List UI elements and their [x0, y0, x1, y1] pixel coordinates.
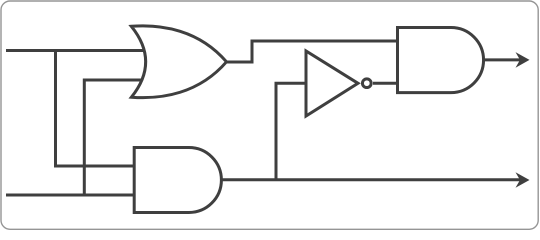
wire AND1 output to top right arrow — [482, 58, 521, 61]
not-gate G3 triangle — [306, 51, 358, 116]
wire NOT output to AND1 input 2 — [373, 82, 400, 85]
wire input A (top left horizontal) — [6, 49, 150, 52]
and-gate G4 (top) — [398, 28, 484, 93]
and-gate G2 (bottom) — [134, 148, 221, 213]
wire OR output stepping up to AND1 input 1 — [227, 41, 401, 62]
wire input B (bottom left horizontal) — [6, 194, 140, 197]
not-gate G3 bubble — [362, 79, 371, 88]
wire branch from input B up and right to OR input 2 — [84, 80, 150, 195]
or-gate G1 — [131, 26, 226, 98]
wire AND2 output to bottom right arrow — [220, 178, 521, 181]
wire branch from input A down and right to AND2 input 1 — [56, 51, 141, 167]
arrowhead output 2 (bottom right) — [516, 172, 530, 188]
arrowhead output 1 (top right) — [516, 52, 530, 68]
wire NOT input riser from AND2 output wire — [276, 83, 308, 180]
